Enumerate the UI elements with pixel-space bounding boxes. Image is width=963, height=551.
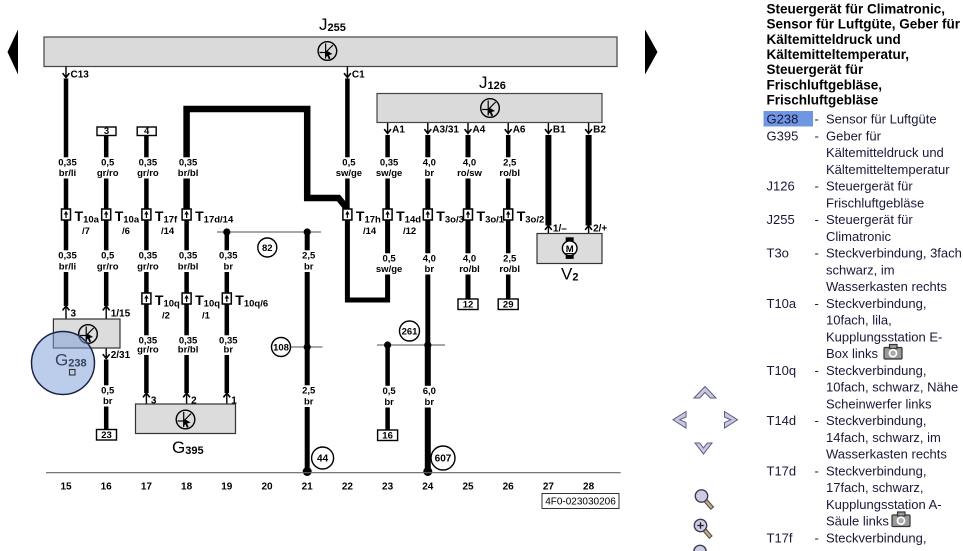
zoom-in magnifier icon — [694, 519, 711, 537]
svg-text:261: 261 — [402, 327, 419, 338]
svg-text:23: 23 — [382, 482, 394, 493]
svg-text:Frischluftgebläse: Frischluftgebläse — [826, 195, 924, 210]
blower control unit J126 box — [377, 94, 602, 123]
svg-text:br: br — [304, 262, 314, 273]
svg-text:108: 108 — [273, 343, 289, 354]
svg-text:br: br — [425, 397, 435, 408]
wire label 0,5 sw/ge upper col22 — [332, 157, 363, 179]
svg-text:17: 17 — [141, 482, 153, 493]
svg-text:0,35: 0,35 — [179, 158, 198, 169]
svg-text:25: 25 — [462, 482, 474, 493]
svg-text:schwarz, im: schwarz, im — [826, 262, 895, 277]
svg-text:82: 82 — [262, 243, 273, 254]
U-link wire T17h to T14d — [347, 220, 387, 300]
ground node 607 circle — [431, 446, 455, 470]
svg-text:A1: A1 — [392, 125, 405, 136]
connector T3o/3 — [423, 208, 464, 226]
wire label 0,35 br/li upper col15 — [51, 157, 82, 179]
svg-text:14fach, schwarz, im: 14fach, schwarz, im — [826, 430, 941, 445]
connector T17f/14 — [142, 208, 178, 237]
svg-text:0,35: 0,35 — [380, 158, 399, 169]
svg-text:G395: G395 — [172, 438, 204, 457]
wire label 0,5 sw/ge lower col23 — [372, 253, 403, 275]
svg-text:br/bl: br/bl — [178, 262, 199, 273]
pin arrow A3/31 — [424, 123, 459, 136]
pin arrow 2/31 below G238 — [103, 349, 131, 362]
svg-text:T3o: T3o — [767, 246, 789, 261]
terminal box 4 col17 — [137, 126, 156, 137]
svg-text:17fach, schwarz,: 17fach, schwarz, — [826, 480, 924, 495]
ground dot col21 — [303, 467, 312, 476]
svg-text:Steckverbindung,: Steckverbindung, — [826, 463, 926, 478]
label G395 — [172, 438, 204, 457]
svg-text:4,0: 4,0 — [423, 254, 436, 265]
sensor G395 gray box — [136, 404, 236, 434]
terminal box 12 — [458, 299, 478, 311]
svg-text:19: 19 — [221, 482, 233, 493]
pin arrow A4 — [465, 123, 486, 136]
wire label 0,5 gr/ro mid col16 — [91, 250, 122, 272]
svg-text:gr/ro: gr/ro — [137, 262, 159, 273]
node 82 circle — [258, 238, 277, 257]
svg-text:-: - — [815, 246, 819, 261]
svg-text:T17d/14: T17d/14 — [195, 208, 234, 226]
connector T3o/2 — [504, 208, 545, 226]
connector T14d/12 — [383, 208, 421, 237]
nav arrow up — [694, 387, 716, 399]
control unit J255 bus bar — [44, 37, 617, 67]
svg-text:4,0: 4,0 — [463, 158, 476, 169]
wire label 0,35 br/bl upper col18 — [171, 157, 202, 179]
pin arrow A6 — [505, 123, 526, 136]
svg-text:1/15: 1/15 — [111, 309, 131, 320]
wire col18 T17d to G395 — [184, 220, 189, 393]
sensor G238 gray box — [53, 319, 120, 348]
svg-text:M: M — [566, 244, 574, 255]
svg-text:T10q: T10q — [767, 363, 797, 378]
svg-text:-: - — [815, 530, 819, 545]
sidebar legend list — [767, 112, 963, 546]
svg-text:br: br — [425, 264, 435, 275]
wire label 2,5 br mid col21 — [292, 250, 323, 272]
junction dot col21 on node 82 — [304, 228, 311, 235]
nav arrow down — [695, 443, 712, 454]
partial magnifier icon at bottom edge — [694, 545, 706, 551]
wire label 0,35 br/li mid col15 — [51, 250, 82, 272]
wire col17 box4 to G395 — [144, 136, 149, 394]
svg-text:2,5: 2,5 — [503, 254, 517, 265]
svg-text:T10q: T10q — [195, 292, 220, 310]
left page-nav arrow — [8, 30, 19, 75]
svg-text:br/bl: br/bl — [178, 168, 199, 179]
svg-text:Scheinwerfer links: Scheinwerfer links — [826, 396, 932, 411]
svg-text:T10a: T10a — [767, 296, 797, 311]
svg-text:T3o/1: T3o/1 — [477, 208, 505, 226]
svg-text:ro/bl: ro/bl — [499, 168, 520, 179]
grid numbers 15-28 — [60, 482, 594, 493]
terminal box 29 — [498, 299, 518, 311]
camera icon after Saeule links — [892, 512, 910, 527]
svg-text:21: 21 — [302, 482, 314, 493]
node 261 circle — [400, 321, 420, 341]
terminal box 23 — [97, 430, 117, 442]
wire label 2,5 ro/bl upper col26 — [493, 157, 524, 179]
node 108 circle — [272, 338, 291, 357]
wire label 0,35 br lower col19 — [211, 335, 242, 355]
pin arrow C1 — [344, 67, 365, 81]
svg-text:T14d: T14d — [767, 413, 797, 428]
svg-text:/2: /2 — [162, 311, 170, 322]
svg-text:0,35: 0,35 — [139, 158, 158, 169]
wire label 0,35 gr/ro lower col17 — [131, 335, 162, 355]
pin arrow 3 at G238 — [63, 306, 77, 320]
svg-text:Climatronic: Climatronic — [826, 229, 892, 244]
svg-text:-: - — [815, 296, 819, 311]
svg-text:Kältemitteltemperatur,: Kältemitteltemperatur, — [767, 47, 910, 62]
svg-text:4F0-023030206: 4F0-023030206 — [545, 497, 616, 508]
ground rail bottom line — [46, 472, 621, 474]
svg-text:-: - — [815, 179, 819, 194]
junction dot col23 node 261 — [384, 341, 391, 348]
wire label 0,5 gr/ro upper col16 — [91, 157, 122, 179]
svg-text:T10a: T10a — [115, 208, 140, 226]
svg-text:br: br — [384, 397, 394, 408]
svg-text:T17f: T17f — [155, 208, 178, 226]
terminal box 16 — [378, 430, 398, 442]
svg-text:Steuergerät für Climatronic,: Steuergerät für Climatronic, — [767, 1, 946, 16]
blower motor V2 box — [537, 234, 602, 264]
terminal box 3 col16 — [97, 126, 116, 137]
wire label 0,5 br lower col23 — [372, 386, 403, 408]
connector T10q/1 — [182, 292, 220, 322]
right page-nav arrow — [645, 30, 658, 75]
svg-text:J255: J255 — [767, 212, 795, 227]
svg-text:Kältemitteldruck und: Kältemitteldruck und — [767, 32, 901, 47]
svg-text:gr/ro: gr/ro — [97, 168, 119, 179]
G238 highlight circle — [32, 332, 95, 395]
wire label 0,35 br/bl lower col18 — [171, 335, 202, 355]
svg-text:44: 44 — [317, 454, 329, 465]
svg-text:-: - — [815, 212, 819, 227]
svg-text:26: 26 — [503, 482, 515, 493]
svg-text:A3/31: A3/31 — [432, 125, 459, 136]
svg-text:Wasserkasten rechts: Wasserkasten rechts — [826, 279, 947, 294]
thick link wire col18 top bend to T17h — [187, 109, 348, 212]
svg-text:Sensor für Luftgüte: Sensor für Luftgüte — [826, 112, 937, 127]
pin arrow B2 — [585, 123, 606, 136]
svg-text:br: br — [425, 168, 435, 179]
svg-text:16: 16 — [382, 431, 393, 442]
svg-text:12: 12 — [463, 300, 474, 311]
svg-text:T10q: T10q — [155, 292, 180, 310]
junction dot col19 on node 82 — [223, 228, 230, 235]
svg-text:2/+: 2/+ — [593, 224, 607, 235]
pin arrow 3 at G395 — [143, 393, 157, 407]
wire label 4,0 br upper col24 — [412, 157, 443, 179]
svg-text:Kupplungsstation A-: Kupplungsstation A- — [826, 497, 942, 512]
wire label 4,0 br mid col24 — [412, 253, 443, 275]
svg-text:15: 15 — [60, 482, 72, 493]
junction dot col21 node 108 — [304, 343, 311, 350]
svg-text:0,5: 0,5 — [382, 386, 396, 397]
J126 clickable cursor icon — [481, 99, 500, 118]
pin arrow C13 — [63, 67, 90, 81]
wire col26 A6 to box29 — [506, 135, 511, 299]
svg-text:br/li: br/li — [59, 262, 76, 273]
svg-text:Wasserkasten rechts: Wasserkasten rechts — [826, 447, 947, 462]
svg-text:0,5: 0,5 — [101, 386, 115, 397]
wire label 4,0 ro/bl mid col25 — [453, 253, 484, 275]
svg-text:/14: /14 — [161, 226, 175, 237]
label G238 — [55, 351, 87, 376]
svg-text:29: 29 — [503, 300, 514, 311]
svg-text:20: 20 — [261, 482, 273, 493]
svg-text:22: 22 — [342, 482, 354, 493]
svg-text:Steuergerät für: Steuergerät für — [767, 62, 865, 77]
svg-text:gr/ro: gr/ro — [137, 345, 159, 356]
wire col25 A4 to box12 — [466, 135, 471, 299]
wire label 0,35 gr/ro mid col17 — [131, 250, 162, 272]
svg-text:C13: C13 — [71, 70, 90, 81]
pin arrow 1/15 at G238 — [103, 306, 131, 320]
svg-text:/7: /7 — [82, 226, 90, 237]
svg-text:Geber für: Geber für — [826, 128, 882, 143]
svg-text:-: - — [815, 363, 819, 378]
zoom-out magnifier icon — [695, 490, 712, 509]
svg-text:0,35: 0,35 — [219, 251, 238, 262]
node 261 rail line — [377, 344, 445, 346]
svg-text:Frischluftgebläse: Frischluftgebläse — [767, 93, 879, 108]
label V2 — [561, 265, 578, 284]
svg-text:18: 18 — [181, 482, 193, 493]
connector T3o/1 — [464, 208, 505, 226]
nav arrow left — [673, 412, 686, 429]
connector T17d/14 — [182, 208, 234, 226]
sidebar heading — [767, 1, 961, 107]
wire label 2,5 br lower col21 — [292, 385, 323, 407]
svg-text:B2: B2 — [593, 125, 606, 136]
svg-text:br: br — [224, 345, 234, 356]
svg-text:0,35: 0,35 — [58, 251, 77, 262]
svg-text:ro/sw: ro/sw — [457, 168, 482, 179]
svg-text:/14: /14 — [363, 226, 377, 237]
wire col15 C13 to G238 — [64, 79, 69, 307]
G238 legend highlight — [764, 111, 814, 127]
junction dot col24 node 261 — [424, 341, 431, 348]
wire label 6,0 br lower col24 — [412, 386, 443, 408]
wire col28 B2 to V2 — [586, 135, 592, 226]
svg-text:0,5: 0,5 — [382, 254, 396, 265]
svg-text:28: 28 — [583, 482, 595, 493]
G238 cursor icon — [79, 325, 98, 344]
svg-text:-: - — [815, 128, 819, 143]
connector T10q/2 — [142, 292, 180, 322]
svg-text:br: br — [304, 397, 314, 408]
svg-text:0,5: 0,5 — [101, 251, 115, 262]
camera icon after Box links — [884, 345, 902, 360]
svg-text:J126: J126 — [479, 73, 506, 92]
svg-text:607: 607 — [435, 454, 452, 465]
svg-text:0,35: 0,35 — [139, 251, 158, 262]
pin arrow 1/- at V2 — [545, 224, 567, 235]
svg-text:V2: V2 — [561, 265, 578, 284]
svg-text:G395: G395 — [767, 128, 799, 143]
wire label 0,35 br mid col19 — [211, 250, 242, 272]
svg-text:Sensor für Luftgüte, Geber für: Sensor für Luftgüte, Geber für — [767, 17, 961, 32]
svg-text:br: br — [224, 262, 234, 273]
node 108 rail line — [289, 346, 323, 348]
svg-text:3: 3 — [71, 309, 77, 320]
ground node 44 circle — [312, 447, 334, 469]
svg-text:4,0: 4,0 — [463, 254, 476, 265]
svg-text:6,0: 6,0 — [423, 386, 436, 397]
svg-text:27: 27 — [543, 482, 555, 493]
J255 clickable cursor icon — [318, 42, 337, 61]
svg-text:T10a: T10a — [75, 208, 100, 226]
connector T10q/6 — [222, 292, 268, 310]
svg-text:0,5: 0,5 — [101, 158, 115, 169]
svg-text:2/31: 2/31 — [111, 350, 131, 361]
svg-text:2,5: 2,5 — [503, 158, 517, 169]
wire col23 node261 to box16 — [385, 345, 390, 430]
svg-text:0,5: 0,5 — [342, 158, 356, 169]
svg-text:T3o/2: T3o/2 — [517, 208, 545, 226]
pin arrow 1 at G395 — [223, 393, 237, 407]
svg-text:Frischluftgebläse,: Frischluftgebläse, — [767, 77, 883, 92]
svg-text:/6: /6 — [122, 226, 130, 237]
wire col24 A3/31 to ground — [425, 135, 430, 472]
svg-text:16: 16 — [101, 482, 113, 493]
wire col16 box3 to G238 — [104, 136, 109, 307]
svg-text:Kältemitteltemperatur: Kältemitteltemperatur — [826, 162, 950, 177]
svg-text:T17f: T17f — [767, 530, 793, 545]
connector T10a/6 — [102, 208, 140, 237]
svg-text:24: 24 — [422, 482, 434, 493]
svg-text:Steckverbindung,: Steckverbindung, — [826, 363, 926, 378]
svg-text:Steckverbindung,: Steckverbindung, — [826, 296, 926, 311]
wire label 0,35 gr/ro upper col17 — [131, 157, 162, 179]
V2 motor symbol — [562, 237, 577, 259]
svg-text:gr/ro: gr/ro — [97, 262, 119, 273]
svg-text:Säule links: Säule links — [826, 514, 889, 529]
wire label 0,5 br col16 — [91, 385, 122, 407]
svg-text:T3o/3: T3o/3 — [436, 208, 464, 226]
svg-text:/12: /12 — [403, 226, 416, 237]
wire col19 node82 to G395 — [225, 232, 230, 393]
svg-text:10fach, lila,: 10fach, lila, — [826, 313, 892, 328]
svg-text:-: - — [815, 112, 819, 127]
pin arrow 2 at G395 — [183, 393, 197, 407]
label J255 — [319, 15, 346, 34]
wire col21 node82 to ground — [305, 232, 310, 472]
svg-text:J255: J255 — [319, 15, 346, 34]
svg-text:br/bl: br/bl — [178, 345, 199, 356]
wire label 0,35 sw/ge upper col23 — [372, 157, 403, 179]
wire col27 B1 to V2 — [545, 135, 551, 226]
svg-text:Box links: Box links — [826, 346, 879, 361]
connector T10a/7 — [62, 208, 100, 237]
svg-text:Steuergerät für: Steuergerät für — [826, 179, 913, 194]
svg-text:Kältemitteldruck und: Kältemitteldruck und — [826, 145, 944, 160]
connector T17h/14 — [343, 208, 381, 237]
svg-text:sw/ge: sw/ge — [376, 264, 402, 275]
svg-text:2,5: 2,5 — [302, 251, 316, 262]
svg-text:-: - — [815, 463, 819, 478]
svg-text:J126: J126 — [767, 179, 795, 194]
wire col16 G238 to box23 — [104, 360, 109, 430]
svg-text:2,5: 2,5 — [302, 386, 316, 397]
svg-text:0,35: 0,35 — [179, 251, 198, 262]
svg-text:4,0: 4,0 — [423, 158, 436, 169]
svg-text:A6: A6 — [513, 125, 526, 136]
label J126 — [479, 73, 506, 92]
svg-text:A4: A4 — [473, 125, 486, 136]
svg-text:Steuergerät für: Steuergerät für — [826, 212, 913, 227]
svg-text:/1: /1 — [202, 311, 211, 322]
wire label 4,0 ro/sw upper col25 — [453, 157, 484, 179]
svg-text:C1: C1 — [352, 70, 365, 81]
pin arrow B1 — [545, 123, 566, 136]
svg-text:1/–: 1/– — [553, 224, 567, 235]
wire label 2,5 ro/bl mid col26 — [493, 253, 524, 275]
wire col23 A1 to T14d — [385, 135, 390, 209]
pin arrow 2/+ at V2 — [585, 224, 607, 235]
svg-text:br: br — [103, 396, 113, 407]
svg-text:T17d: T17d — [767, 463, 797, 478]
svg-text:T17h: T17h — [356, 208, 381, 226]
svg-text:Steckverbindung,: Steckverbindung, — [826, 413, 926, 428]
svg-text:0,35: 0,35 — [58, 158, 77, 169]
svg-text:sw/ge: sw/ge — [376, 168, 402, 179]
svg-text:T14d: T14d — [396, 208, 421, 226]
nav arrow right — [725, 412, 738, 429]
wire label 0,35 br/bl mid col18 — [171, 250, 202, 272]
svg-text:-: - — [815, 413, 819, 428]
svg-text:G238: G238 — [767, 112, 799, 127]
ground dot col24 — [423, 467, 432, 476]
svg-text:Kupplungsstation E-: Kupplungsstation E- — [826, 329, 942, 344]
svg-text:ro/bl: ro/bl — [499, 264, 520, 275]
diagram number box 4F0-023030206 — [542, 494, 619, 509]
G395 cursor icon — [176, 410, 195, 429]
svg-text:ro/bl: ro/bl — [459, 264, 480, 275]
node 82 rail line — [217, 231, 321, 233]
pin arrow A1 — [384, 123, 405, 136]
svg-text:T10q/6: T10q/6 — [235, 292, 268, 310]
svg-text:br/li: br/li — [59, 168, 76, 179]
svg-text:Steckverbindung,: Steckverbindung, — [826, 530, 926, 545]
wire col22 C1 to T17h — [345, 79, 350, 210]
svg-text:B1: B1 — [553, 125, 566, 136]
svg-text:23: 23 — [101, 430, 112, 441]
svg-text:sw/ge: sw/ge — [336, 168, 362, 179]
svg-text:10fach, schwarz, Nähe: 10fach, schwarz, Nähe — [826, 380, 958, 395]
svg-text:gr/ro: gr/ro — [137, 168, 159, 179]
svg-text:Steckverbindung, 3fach,: Steckverbindung, 3fach, — [826, 246, 963, 261]
